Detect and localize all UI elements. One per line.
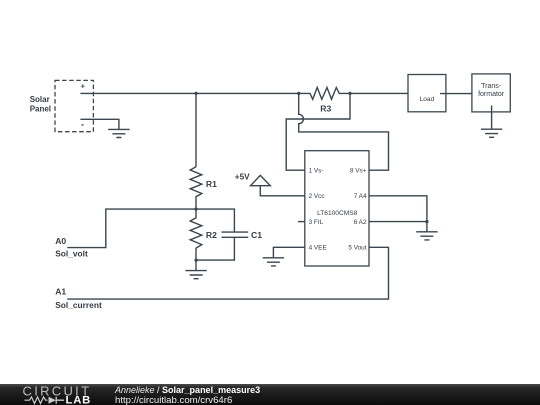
logo symbols: diode <box>49 397 57 404</box>
C1 plates <box>222 232 249 237</box>
svg-text:5 Vout: 5 Vout <box>348 245 366 252</box>
wire: solar panel - terminal to ground <box>80 119 119 129</box>
svg-text:Sol_current: Sol_current <box>55 300 102 310</box>
resistor R2 <box>190 209 202 260</box>
footer bar <box>0 384 540 405</box>
svg-text:3 FIL: 3 FIL <box>309 219 324 226</box>
logo symbols: resistor zigzag <box>25 397 48 404</box>
wire: A0 lead <box>67 209 196 248</box>
svg-text:A1: A1 <box>55 286 66 296</box>
wire: R3 left to IC pin 8 (Vs+) with hop over the Vs- wire <box>299 93 389 170</box>
solar panel source V1 (dashed box with + and - terminals) <box>55 80 93 131</box>
node: R2 bottom / C1 bottom / ground <box>194 258 197 261</box>
svg-text:LT6100CMS8: LT6100CMS8 <box>317 210 358 217</box>
svg-text:Load: Load <box>420 96 435 103</box>
wire: solar panel + terminal to R3 left node <box>80 92 298 94</box>
ground (transformator) <box>481 129 502 137</box>
svg-text:8 Vs+: 8 Vs+ <box>350 168 367 175</box>
wire: C1 bottom lead <box>196 237 234 260</box>
svg-text:Sol_volt: Sol_volt <box>55 248 88 258</box>
resistor R3 <box>299 88 350 100</box>
svg-text:R3: R3 <box>320 104 331 114</box>
svg-text:6 A2: 6 A2 <box>354 219 367 226</box>
wire: pin 6 A2 to node <box>369 221 427 223</box>
svg-text:Trans-: Trans- <box>481 83 502 90</box>
capacitor C1 <box>196 209 248 260</box>
svg-text:http://circuitlab.com/crv64r6: http://circuitlab.com/crv64r6 <box>115 395 232 405</box>
svg-text:4 VEE: 4 VEE <box>309 245 327 252</box>
pin 3 stub (FIL, unconnected) <box>298 221 305 223</box>
wire: R3 right to IC pin 1 (Vs-) <box>286 93 350 170</box>
ground (solar panel minus) <box>108 129 129 137</box>
svg-text:A0: A0 <box>55 236 66 246</box>
node: R1/R2/A0/C1 junction <box>194 207 197 210</box>
op-amp U1 LT6100CMS8 <box>305 151 369 266</box>
node: junction of + wire and R1 <box>194 92 197 95</box>
wire: C1 top lead <box>196 209 234 232</box>
svg-text:Panel: Panel <box>30 105 51 114</box>
node: A2/A4 junction <box>425 220 428 223</box>
wire: A2 node to ground <box>426 222 428 232</box>
svg-text:+5V: +5V <box>235 172 250 181</box>
node: R3 left <box>297 92 300 95</box>
svg-text:2 Vcc: 2 Vcc <box>309 193 326 200</box>
resistor R1 <box>190 167 202 209</box>
wire: pin 7 A4 down to A2 node <box>369 196 427 222</box>
ground (VEE) <box>263 258 284 266</box>
load box <box>408 75 446 112</box>
wire: R2 bottom to ground <box>195 260 197 271</box>
wire: transformator to ground <box>491 106 493 130</box>
svg-text:1 Vs-: 1 Vs- <box>309 168 324 175</box>
net +5V supply arrow <box>251 175 305 195</box>
svg-text:C1: C1 <box>251 230 262 240</box>
node: R3 right <box>348 92 351 95</box>
svg-text:formator: formator <box>478 91 505 98</box>
wire: pin 4 VEE to ground <box>273 247 304 257</box>
wire: Load to Transformator <box>440 93 472 95</box>
label Solar Panel <box>30 95 51 114</box>
svg-text:R1: R1 <box>206 179 217 189</box>
svg-text:Annelieke / Solar_panel_measur: Annelieke / Solar_panel_measure3 <box>114 385 260 395</box>
svg-text:-: - <box>81 120 84 130</box>
svg-text:7 A4: 7 A4 <box>354 193 367 200</box>
svg-text:+: + <box>81 82 86 91</box>
svg-text:R2: R2 <box>206 230 217 240</box>
ground (R2 bottom) <box>185 271 206 279</box>
transformator box <box>472 74 510 112</box>
svg-text:LAB: LAB <box>66 395 92 405</box>
wire: pin 5 Vout to A1 lead <box>67 247 388 299</box>
ground (A2/A4) <box>416 232 437 240</box>
wire: R3 right node to Load <box>350 92 408 94</box>
svg-text:Solar: Solar <box>30 95 50 104</box>
wire: junction down to R1 top <box>195 93 197 166</box>
